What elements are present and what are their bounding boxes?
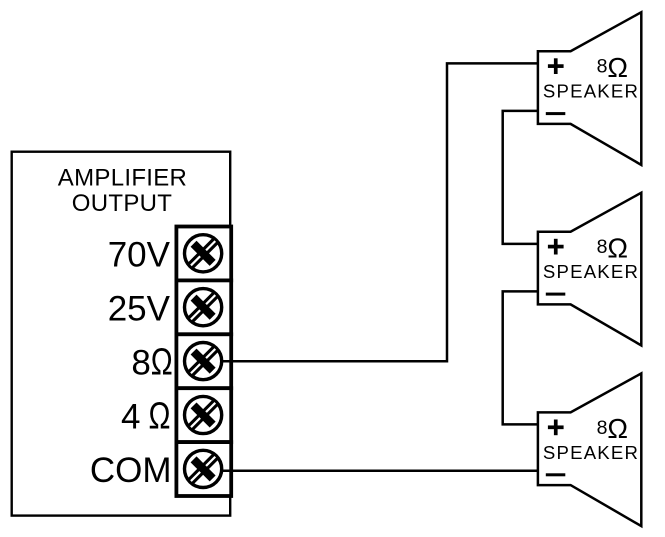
svg-text:25V: 25V (108, 290, 171, 329)
svg-text:AMPLIFIER: AMPLIFIER (58, 165, 187, 192)
svg-text:OUTPUT: OUTPUT (72, 190, 172, 217)
svg-text:70V: 70V (108, 236, 171, 275)
svg-text:8Ω: 8Ω (131, 341, 172, 383)
svg-text:COM: COM (90, 451, 172, 490)
